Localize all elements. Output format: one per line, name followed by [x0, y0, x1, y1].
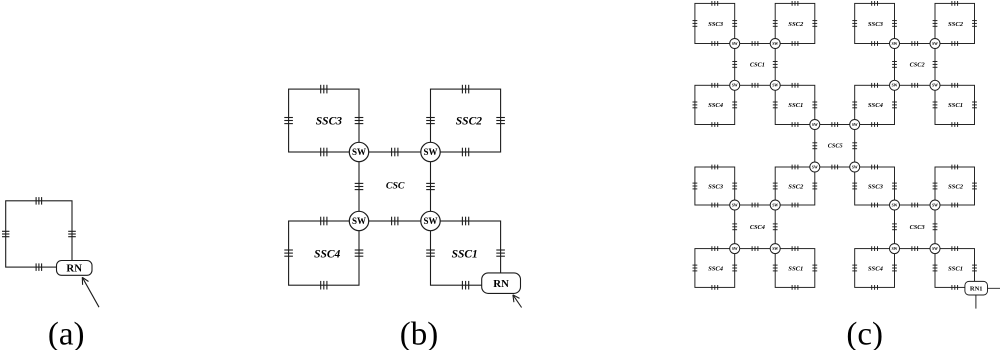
- ring SSC (a): [6, 201, 72, 267]
- ring SSC3 (c top-left): [695, 3, 735, 43]
- ring CSC1 (c top-left cluster central ring): [735, 44, 776, 86]
- bus ticks SSC3 (c bottom-right) right edge: [892, 183, 897, 189]
- label SSC1 (c top-right): [948, 102, 963, 109]
- ring SSC4 (c top-left): [695, 85, 735, 124]
- label SSC3 (c bottom-right): [868, 183, 884, 190]
- bus ticks SSC2 (c top-left) bottom edge: [792, 41, 798, 46]
- label SSC3 (c bottom-left): [708, 183, 724, 190]
- ring SSC1 (b): [431, 221, 501, 285]
- label SSC3 (c top-left): [708, 21, 724, 28]
- ring CSC (b) central ring: [359, 152, 431, 221]
- svg-text:SW: SW: [732, 203, 738, 207]
- bus ticks SSC4 (c bottom-right) bottom edge: [872, 285, 878, 290]
- label SSC2 (b): [456, 116, 482, 128]
- label caption (c): [846, 317, 883, 350]
- bus ticks SSC3 (c bottom-right) bottom edge: [872, 203, 878, 208]
- switch SW (CSC5 bottom-left): [810, 162, 820, 172]
- svg-text:SSC2: SSC2: [788, 21, 804, 28]
- svg-text:SSC1: SSC1: [788, 102, 803, 109]
- bus ticks SSC1 (c bottom-right) left edge: [933, 265, 938, 271]
- bus ticks SSC1 (c bottom-right) bottom edge: [952, 285, 958, 290]
- bus ticks SSC3 (c top-right) bottom edge: [872, 41, 878, 46]
- bus ticks SSC1 (c top-left) left edge: [773, 102, 778, 108]
- svg-text:SSC2: SSC2: [456, 116, 482, 128]
- svg-text:SSC2: SSC2: [788, 183, 804, 190]
- arrow pointing to RN (b): [513, 295, 522, 308]
- bus ticks SSC2 (b) top edge: [462, 85, 468, 94]
- bus ticks CSC5 bottom segment: [832, 165, 838, 170]
- switch SW (c top-right ring bottom-right): [930, 80, 940, 90]
- switch SW (CSC5 bottom-right): [850, 162, 860, 172]
- bus ticks SSC4 (c top-right) bottom edge: [872, 122, 878, 127]
- svg-text:SW: SW: [852, 165, 858, 169]
- bus ticks SSC1 (b) right edge: [496, 250, 505, 256]
- bus ticks CSC3 bottom segment: [912, 246, 918, 251]
- svg-text:SSC3: SSC3: [868, 21, 884, 28]
- svg-text:SW: SW: [892, 203, 898, 207]
- node RN1 (c): [965, 281, 988, 295]
- bus ticks SSC3 (c bottom-left) bottom edge: [712, 203, 718, 208]
- svg-text:CSC4: CSC4: [750, 224, 765, 231]
- svg-text:(c): (c): [846, 317, 883, 350]
- bus ticks CSC (b) top segment: [392, 148, 398, 157]
- label SSC1 (c bottom-left): [788, 265, 803, 272]
- bus ticks SSC3 (c top-right) right edge: [892, 21, 897, 27]
- label SSC4 (b): [314, 248, 340, 260]
- bus ticks SSC4 (c top-right) top edge: [872, 83, 878, 88]
- bus ticks SSC2 (c bottom-left) bottom edge: [792, 203, 798, 208]
- label SSC1 (c bottom-right): [948, 265, 963, 272]
- label CSC1 (c top-left): [750, 62, 765, 69]
- bus ticks SSC1 (c bottom-left) left edge: [773, 265, 778, 271]
- svg-text:CSC: CSC: [386, 181, 405, 192]
- ring SSC1 (c top-right): [935, 85, 975, 124]
- bus ticks SSC1 (c top-left) right edge: [812, 102, 817, 108]
- switch SW (b) bottom-left: [349, 211, 368, 230]
- ring SSC4 (c top-right): [855, 85, 895, 124]
- bus ticks CSC2 top segment: [912, 41, 918, 46]
- ring SSC3 (b): [289, 89, 359, 152]
- bus ticks CSC (b) bottom segment: [392, 217, 398, 226]
- svg-text:SSC4: SSC4: [708, 265, 724, 272]
- label SSC4 (c top-left): [708, 102, 724, 109]
- svg-text:SW: SW: [732, 84, 738, 88]
- bus ticks CSC1 top segment: [752, 41, 758, 46]
- svg-text:SW: SW: [852, 123, 858, 127]
- label CSC2 (c top-right): [910, 62, 925, 69]
- bus ticks SSC2 (c top-left) top edge: [792, 1, 798, 6]
- bus ticks SSC4 (c bottom-left) right edge: [732, 265, 737, 271]
- label SSC2 (c top-right): [948, 21, 964, 28]
- svg-text:SW: SW: [423, 147, 437, 157]
- svg-text:RN: RN: [66, 263, 82, 275]
- bus ticks SSC3 (b) right edge: [355, 118, 364, 124]
- svg-text:CSC2: CSC2: [910, 62, 925, 69]
- bus ticks SSC1 (c top-left) bottom edge: [792, 122, 798, 127]
- bus ticks SSC3 (b) left edge: [284, 118, 293, 124]
- svg-text:SSC3: SSC3: [316, 116, 342, 128]
- ring CSC2 (c top-right cluster central ring): [895, 44, 936, 86]
- svg-text:RN: RN: [493, 278, 509, 290]
- bus ticks SSC (a) left edge: [2, 231, 9, 236]
- bus ticks SSC4 (c top-left) top edge: [712, 83, 718, 88]
- label SSC2 (c bottom-left): [788, 183, 804, 190]
- label SSC4 (c bottom-right): [868, 265, 884, 272]
- svg-text:SW: SW: [423, 216, 437, 226]
- bus ticks SSC3 (c top-left) left edge: [693, 21, 698, 27]
- bus ticks SSC2 (c bottom-right) left edge: [933, 183, 938, 189]
- svg-text:SSC3: SSC3: [868, 183, 884, 190]
- bus ticks SSC2 (c top-left) right edge: [812, 21, 817, 27]
- switch SW (b) top-right: [421, 142, 440, 161]
- switch SW (c top-right ring top-right): [930, 39, 940, 49]
- bus ticks SSC3 (c bottom-right) left edge: [852, 183, 857, 189]
- bus ticks SSC4 (c bottom-right) right edge: [892, 265, 897, 271]
- svg-text:SW: SW: [772, 247, 778, 251]
- bus ticks SSC1 (c bottom-left) bottom edge: [792, 285, 798, 290]
- label SSC2 (c top-left): [788, 21, 804, 28]
- bus ticks SSC1 (c top-right) bottom edge: [952, 122, 958, 127]
- ring SSC1 (c top-left): [775, 85, 815, 124]
- switch SW (c bottom-right ring top-left): [890, 200, 900, 210]
- switch SW (c bottom-left ring top-right): [770, 200, 780, 210]
- svg-text:SSC3: SSC3: [708, 21, 724, 28]
- bus ticks SSC2 (c top-right) bottom edge: [952, 41, 958, 46]
- switch SW (c top-left ring bottom-right): [770, 80, 780, 90]
- bus ticks SSC2 (c top-right) left edge: [933, 21, 938, 27]
- bus ticks SSC4 (c top-left) left edge: [693, 102, 698, 108]
- bus ticks SSC2 (c bottom-left) right edge: [812, 183, 817, 189]
- svg-text:SW: SW: [772, 203, 778, 207]
- bus ticks SSC1 (c top-right) right edge: [972, 102, 977, 108]
- svg-text:CSC3: CSC3: [910, 224, 925, 231]
- bus ticks SSC4 (b) top edge: [321, 217, 327, 226]
- bus ticks SSC3 (c top-left) bottom edge: [712, 41, 718, 46]
- bus ticks SSC2 (c bottom-left) left edge: [773, 183, 778, 189]
- bus ticks SSC2 (c top-right) right edge: [972, 21, 977, 27]
- svg-text:SW: SW: [892, 247, 898, 251]
- label SSC2 (c bottom-right): [948, 183, 964, 190]
- bus ticks SSC4 (c bottom-left) bottom edge: [712, 285, 718, 290]
- label SSC1 (b): [452, 248, 478, 260]
- bus ticks SSC4 (c top-left) bottom edge: [712, 122, 718, 127]
- switch SW (c top-left ring bottom-left): [730, 80, 740, 90]
- switch SW (b) top-left: [349, 142, 368, 161]
- ring SSC1 (c bottom-right): [935, 249, 975, 288]
- svg-text:SW: SW: [932, 203, 938, 207]
- svg-text:SW: SW: [352, 216, 366, 226]
- switch SW (c bottom-left ring bottom-right): [770, 244, 780, 254]
- bus ticks SSC3 (c bottom-right) top edge: [872, 165, 878, 170]
- bus ticks CSC5 right segment: [852, 143, 857, 149]
- svg-text:SW: SW: [732, 42, 738, 46]
- label SSC1 (c top-left): [788, 102, 803, 109]
- bus ticks SSC (a) right edge: [68, 231, 76, 236]
- bus ticks SSC4 (c bottom-right) top edge: [872, 246, 878, 251]
- ring SSC2 (c bottom-right): [935, 167, 975, 205]
- node RN (b): [482, 273, 521, 294]
- svg-text:CSC1: CSC1: [750, 62, 765, 69]
- svg-text:SSC4: SSC4: [868, 265, 884, 272]
- svg-text:RN1: RN1: [970, 285, 983, 292]
- bus ticks SSC2 (c bottom-right) top edge: [952, 165, 958, 170]
- bus ticks SSC4 (b) bottom edge: [321, 281, 327, 290]
- ring CSC4 (c bottom-left cluster central ring): [735, 205, 776, 249]
- ring SSC4 (c bottom-left): [695, 249, 735, 288]
- bus ticks SSC4 (c top-left) right edge: [732, 102, 737, 108]
- svg-text:SSC4: SSC4: [708, 102, 724, 109]
- bus ticks CSC5 left segment: [812, 143, 817, 149]
- switch SW (c bottom-left ring bottom-left): [730, 244, 740, 254]
- label caption (a): [48, 317, 85, 350]
- svg-text:SW: SW: [352, 147, 366, 157]
- bus ticks SSC (a) top edge: [36, 197, 42, 205]
- label caption (b): [400, 317, 438, 350]
- label CSC (b): [386, 181, 405, 192]
- bus ticks CSC4 right segment: [773, 224, 778, 230]
- svg-text:SSC1: SSC1: [452, 248, 478, 260]
- bus ticks SSC3 (b) top edge: [321, 85, 327, 94]
- bus ticks SSC1 (b) bottom edge: [462, 281, 468, 290]
- switch SW (c top-right ring top-left): [890, 39, 900, 49]
- switch SW (c top-left ring top-right): [770, 39, 780, 49]
- bus ticks SSC4 (c bottom-left) left edge: [693, 265, 698, 271]
- svg-text:SW: SW: [892, 42, 898, 46]
- bus ticks SSC1 (b) top edge: [462, 217, 468, 226]
- bus ticks SSC (a) bottom edge: [36, 263, 42, 271]
- bus ticks SSC3 (c top-right) top edge: [872, 1, 878, 6]
- bus ticks SSC3 (c top-right) left edge: [852, 21, 857, 27]
- node RN (a): [57, 261, 93, 276]
- switch SW (c bottom-left ring top-left): [730, 200, 740, 210]
- bus ticks CSC2 left segment: [892, 62, 897, 68]
- arrow pointing to RN (a): [82, 277, 99, 307]
- bus ticks CSC3 top segment: [912, 203, 918, 208]
- bus ticks SSC1 (c bottom-left) top edge: [792, 246, 798, 251]
- bus ticks SSC1 (c top-left) top edge: [792, 83, 798, 88]
- switch SW (c bottom-right ring top-right): [930, 200, 940, 210]
- svg-text:SW: SW: [932, 84, 938, 88]
- svg-text:SW: SW: [932, 247, 938, 251]
- bus ticks CSC3 right segment: [933, 224, 938, 230]
- svg-text:SW: SW: [812, 165, 818, 169]
- bus ticks CSC2 bottom segment: [912, 83, 918, 88]
- bus ticks SSC2 (b) left edge: [426, 118, 435, 124]
- svg-text:CSC5: CSC5: [828, 143, 843, 150]
- bus ticks SSC3 (c bottom-left) right edge: [732, 183, 737, 189]
- bus ticks SSC2 (c bottom-left) top edge: [792, 165, 798, 170]
- bus ticks SSC2 (c bottom-right) bottom edge: [952, 203, 958, 208]
- ring SSC1 (c bottom-left): [775, 249, 815, 288]
- bus ticks SSC2 (c top-right) top edge: [952, 1, 958, 6]
- bus ticks SSC1 (c top-right) left edge: [933, 102, 938, 108]
- svg-text:SSC1: SSC1: [948, 265, 963, 272]
- ring SSC2 (b): [431, 89, 501, 152]
- label CSC3 (c bottom-right): [910, 224, 925, 231]
- ring CSC3 (c bottom-right cluster central ring): [895, 205, 936, 249]
- ring SSC3 (c top-right): [855, 3, 895, 43]
- bus ticks SSC4 (c top-right) left edge: [852, 102, 857, 108]
- ring SSC4 (c bottom-right): [855, 249, 895, 288]
- bus ticks CSC4 bottom segment: [752, 246, 758, 251]
- bus ticks SSC3 (c bottom-left) top edge: [712, 165, 718, 170]
- svg-text:SSC3: SSC3: [708, 183, 724, 190]
- svg-text:SW: SW: [732, 247, 738, 251]
- bus ticks SSC3 (c top-left) top edge: [712, 1, 718, 6]
- bus ticks SSC4 (c top-right) right edge: [892, 102, 897, 108]
- svg-text:SW: SW: [892, 84, 898, 88]
- ring SSC3 (c bottom-right): [855, 167, 895, 205]
- switch SW (CSC5 top-right): [850, 120, 860, 130]
- bus ticks SSC2 (c top-left) left edge: [773, 21, 778, 27]
- label CSC4 (c bottom-left): [750, 224, 765, 231]
- switch SW (c bottom-right ring bottom-left): [890, 244, 900, 254]
- bus ticks SSC2 (b) bottom edge: [462, 148, 468, 157]
- svg-text:SSC4: SSC4: [868, 102, 884, 109]
- switch SW (c top-right ring bottom-left): [890, 80, 900, 90]
- svg-text:(b): (b): [400, 317, 438, 350]
- svg-text:SSC4: SSC4: [314, 248, 340, 260]
- label SSC3 (b): [316, 116, 342, 128]
- label CSC5 (c): [828, 143, 843, 150]
- bus ticks CSC (b) right segment: [426, 183, 435, 189]
- bus ticks CSC2 right segment: [933, 62, 938, 68]
- bus ticks SSC4 (b) left edge: [284, 250, 293, 256]
- bus ticks CSC (b) left segment: [355, 183, 364, 189]
- bus ticks SSC3 (c bottom-left) left edge: [693, 183, 698, 189]
- label SSC4 (c bottom-left): [708, 265, 724, 272]
- ring CSC5 (c central ring): [815, 125, 855, 168]
- bus ticks SSC1 (c bottom-left) right edge: [812, 265, 817, 271]
- svg-text:SSC1: SSC1: [788, 265, 803, 272]
- ring SSC3 (c bottom-left): [695, 167, 735, 205]
- bus ticks SSC3 (b) bottom edge: [321, 148, 327, 157]
- svg-text:SSC2: SSC2: [948, 183, 964, 190]
- switch SW (CSC5 top-left): [810, 120, 820, 130]
- ring SSC4 (b): [289, 221, 359, 285]
- ring SSC2 (c top-left): [775, 3, 815, 43]
- bus ticks CSC5 top segment: [832, 122, 838, 127]
- svg-text:SW: SW: [772, 84, 778, 88]
- bus ticks SSC1 (c top-right) top edge: [952, 83, 958, 88]
- bus ticks SSC2 (b) right edge: [496, 118, 505, 124]
- bus ticks CSC1 bottom segment: [752, 83, 758, 88]
- switch SW (c bottom-right ring bottom-right): [930, 244, 940, 254]
- bus ticks SSC1 (c bottom-right) top edge: [952, 246, 958, 251]
- bus ticks SSC4 (c bottom-right) left edge: [852, 265, 857, 271]
- wire stub below RN1: [975, 288, 977, 308]
- label SSC4 (c top-right): [868, 102, 884, 109]
- bus ticks SSC3 (c top-left) right edge: [732, 21, 737, 27]
- bus ticks SSC4 (b) right edge: [355, 250, 364, 256]
- bus ticks SSC1 (c bottom-right) right edge: [972, 265, 977, 271]
- svg-text:SSC1: SSC1: [948, 102, 963, 109]
- wire from RN1 to right edge: [975, 287, 1000, 289]
- svg-text:SW: SW: [772, 42, 778, 46]
- bus ticks SSC2 (c bottom-right) right edge: [972, 183, 977, 189]
- label SSC3 (c top-right): [868, 21, 884, 28]
- switch SW (c top-left ring top-left): [730, 39, 740, 49]
- bus ticks CSC4 left segment: [732, 224, 737, 230]
- svg-text:SSC2: SSC2: [948, 21, 964, 28]
- svg-text:SW: SW: [812, 123, 818, 127]
- svg-text:(a): (a): [48, 317, 85, 350]
- svg-text:SW: SW: [932, 42, 938, 46]
- ring SSC2 (c top-right): [935, 3, 975, 43]
- switch SW (b) bottom-right: [421, 211, 440, 230]
- bus ticks CSC1 left segment: [732, 62, 737, 68]
- bus ticks CSC3 left segment: [892, 224, 897, 230]
- bus ticks SSC4 (c bottom-left) top edge: [712, 246, 718, 251]
- bus ticks CSC4 top segment: [752, 203, 758, 208]
- ring SSC2 (c bottom-left): [775, 167, 815, 205]
- bus ticks CSC1 right segment: [773, 62, 778, 68]
- bus ticks SSC1 (b) left edge: [426, 250, 435, 256]
